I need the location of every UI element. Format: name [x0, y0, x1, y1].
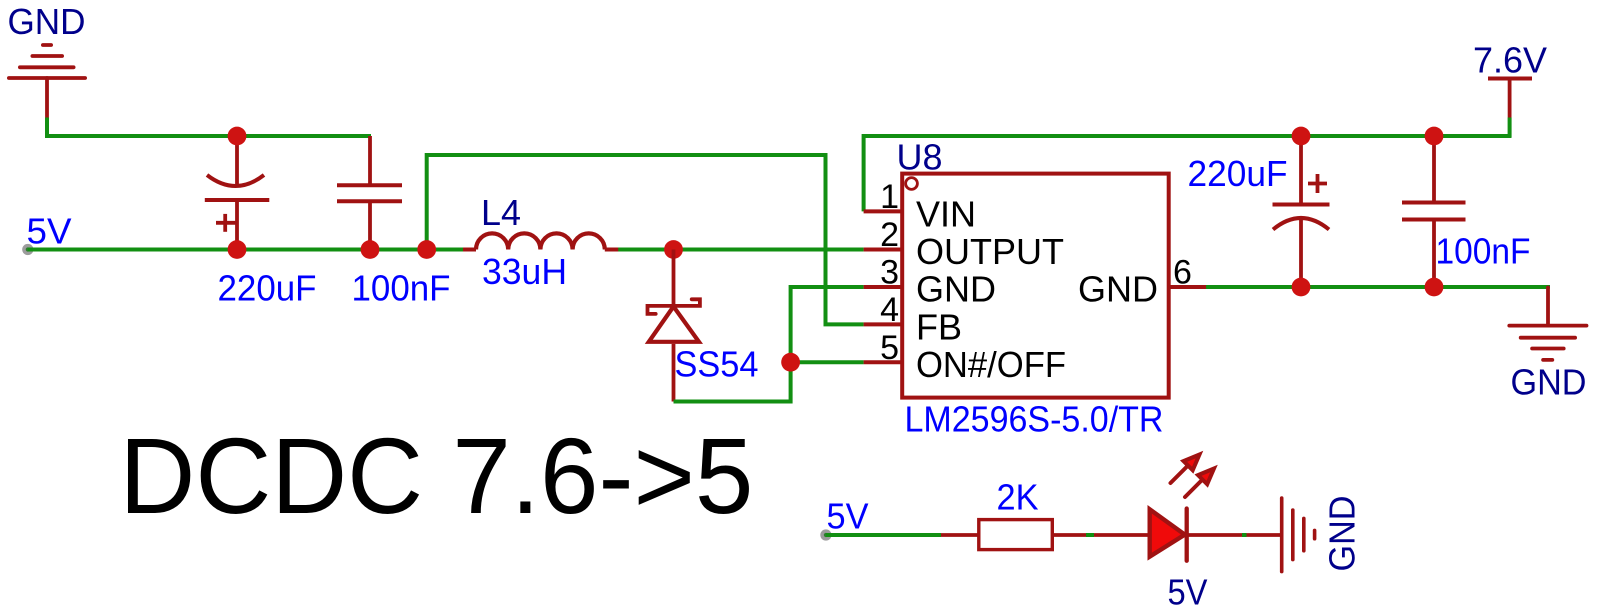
node: junction ground rail / C220uF right bottom	[1292, 278, 1311, 297]
svg-text:U8: U8	[897, 137, 943, 178]
supply symbol 7.6V (bar)	[1488, 79, 1532, 118]
svg-text:GND: GND	[8, 1, 86, 42]
svg-text:1: 1	[880, 178, 899, 216]
svg-text:220uF: 220uF	[1188, 153, 1288, 194]
wire: 5V to resistor 2K	[826, 533, 941, 537]
node: junction VIN rail / C220uF right top	[1292, 127, 1311, 146]
node: junction ground vertical / ON#/OFF branch	[781, 353, 800, 372]
pin: 5V net stub (gray pin circle, bottom left)	[820, 529, 831, 540]
svg-text:100nF: 100nF	[352, 268, 451, 309]
capacitor C 220uF (right, polarized)	[1273, 136, 1330, 287]
svg-text:L4: L4	[481, 192, 521, 233]
svg-text:6: 6	[1173, 254, 1192, 292]
pin stub GND pin 6 (right)	[1167, 285, 1206, 289]
svg-text:2K: 2K	[997, 477, 1039, 518]
pin stub ON#/OFF pin 5	[864, 360, 903, 364]
wire stub: resistor right lead to LED anode	[1053, 533, 1149, 537]
svg-text:VIN: VIN	[916, 194, 976, 235]
node: junction 5V rail / C220uF bottom	[228, 240, 247, 259]
wire: 5V rail from gray pin to inductor L4	[28, 248, 463, 252]
svg-text:5V: 5V	[27, 211, 72, 252]
svg-text:GND: GND	[916, 269, 996, 310]
capacitor C 220uF (left, polarized)	[205, 136, 269, 250]
pin stub GND pin 3	[864, 285, 903, 289]
svg-text:7.6V: 7.6V	[1473, 40, 1547, 81]
svg-text:GND: GND	[1078, 269, 1158, 310]
svg-text:GND: GND	[1322, 496, 1363, 572]
ground symbol GND (LED, rotated)	[1282, 498, 1315, 571]
svg-text:SS54: SS54	[675, 344, 759, 385]
node: junction VIN rail / C100nF right top	[1425, 127, 1444, 146]
wire stub: LED cathode to GND symbol	[1187, 533, 1282, 537]
wire: diode anode to ground vertical and up to IC GND pin 3	[674, 287, 864, 402]
svg-text:33uH: 33uH	[482, 251, 567, 292]
svg-text:3: 3	[880, 254, 899, 292]
svg-text:100nF: 100nF	[1436, 231, 1531, 272]
node: junction 5V rail / FB sense tap	[417, 240, 436, 259]
svg-text:ON#/OFF: ON#/OFF	[916, 344, 1066, 385]
wire: small green net segment between LED and GND	[1242, 533, 1247, 537]
diode D SS54 (schottky)	[648, 250, 700, 402]
pin stub OUTPUT pin 2	[864, 248, 903, 252]
pin stub FB pin 4	[864, 322, 903, 326]
wire stub: resistor left lead	[941, 533, 978, 537]
svg-text:4: 4	[880, 291, 899, 329]
resistor R 2K	[979, 520, 1053, 550]
svg-text:OUTPUT: OUTPUT	[916, 231, 1064, 272]
wire: GND symbol to top-left ground rail	[47, 118, 371, 137]
svg-text:5V: 5V	[827, 495, 869, 536]
op-amp/regulator U8 LM2596S-5.0/TR body	[902, 174, 1168, 398]
inductor L4 33uH	[463, 233, 618, 249]
svg-text:2: 2	[880, 216, 899, 254]
wire: ON#/OFF pin 5 to ground vertical	[791, 360, 864, 364]
wire: 7.6V supply stub to VIN rail	[1508, 118, 1512, 138]
wire: VIN rail (7.6V) down to IC pin 1	[864, 136, 1512, 211]
svg-text:DCDC 7.6->5: DCDC 7.6->5	[119, 415, 753, 536]
svg-text:5V: 5V	[1168, 572, 1208, 613]
capacitor C 100nF (right)	[1402, 136, 1466, 287]
pin 1 indicator circle on U8	[906, 178, 918, 190]
wire: small green net segment between R and LED	[1086, 533, 1094, 537]
wire: FB sense line (5V rail up, across, down to FB pin)	[427, 155, 864, 324]
wire: output ground rail from pin 6 to right GND symbol	[1206, 287, 1548, 289]
svg-text:5: 5	[880, 329, 899, 367]
svg-text:220uF: 220uF	[218, 268, 317, 309]
svg-text:GND: GND	[1511, 361, 1587, 402]
LED light arrow 1	[1171, 455, 1200, 484]
LED light arrow 2	[1185, 469, 1214, 498]
pin: 5V net stub (gray pin circle, left)	[22, 244, 33, 255]
svg-text:FB: FB	[916, 306, 962, 347]
ground symbol GND (top left)	[9, 45, 85, 119]
capacitor C 100nF (left)	[337, 136, 402, 250]
node: junction on ground rail at C220uF top	[228, 127, 247, 146]
LED D 5V (red)	[1150, 509, 1187, 561]
pin stub VIN pin 1	[864, 209, 903, 213]
node: junction 5V rail / C100nF bottom	[361, 240, 380, 259]
node: junction ground rail / C100nF right bottom	[1425, 278, 1444, 297]
node: junction switch node (diode cathode / L4 / pin2)	[664, 240, 683, 259]
ground symbol GND (right)	[1509, 288, 1586, 360]
wire: 5V rail from inductor to IC pin 2	[618, 248, 864, 252]
svg-text:LM2596S-5.0/TR: LM2596S-5.0/TR	[905, 399, 1164, 440]
